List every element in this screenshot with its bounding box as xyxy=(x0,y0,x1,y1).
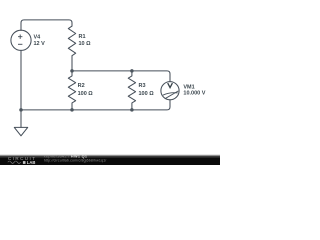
wire bottom rail xyxy=(21,100,170,110)
wire middle rail (R1 bottom to VM1 top) xyxy=(72,56,170,82)
voltage source V4 xyxy=(11,30,31,50)
label V4 12 V xyxy=(34,35,46,47)
svg-text:R2: R2 xyxy=(78,83,85,89)
label R1 10 Ohm xyxy=(79,34,92,47)
junction node R3 top xyxy=(130,69,134,73)
resistor R2 xyxy=(68,71,75,110)
svg-text:100 Ω: 100 Ω xyxy=(139,91,155,97)
svg-text:R1: R1 xyxy=(79,34,86,40)
svg-text:V4: V4 xyxy=(34,35,42,41)
wire ground lead xyxy=(20,110,22,128)
resistor R3 xyxy=(128,71,135,110)
watermark bar xyxy=(0,154,220,157)
svg-text:10 Ω: 10 Ω xyxy=(79,41,92,47)
junction node ground/V4 xyxy=(19,108,23,112)
svg-text:LAB: LAB xyxy=(27,160,36,165)
junction node R1/R2/middle xyxy=(70,69,74,73)
junction node R2 bottom xyxy=(70,108,74,112)
svg-text:VM1: VM1 xyxy=(183,85,194,91)
svg-text:12 V: 12 V xyxy=(34,41,46,47)
svg-text:100 Ω: 100 Ω xyxy=(78,91,94,97)
junction node R3 bottom xyxy=(130,108,134,112)
label R3 100 Ohm xyxy=(139,83,155,97)
resistor R1 xyxy=(68,26,75,56)
voltmeter V glyph xyxy=(168,83,173,88)
svg-text:http://circuitlab.com/c/8gj6b8: http://circuitlab.com/c/8gj6b8/hw1q1/ xyxy=(44,158,107,162)
wire V4 bottom lead xyxy=(20,50,22,110)
ground xyxy=(14,127,27,135)
watermark CircuitLab logo xyxy=(8,156,37,165)
label VM1 10.000 V xyxy=(183,85,205,97)
svg-text:10.000 V: 10.000 V xyxy=(183,91,205,97)
voltmeter VM1 xyxy=(161,82,179,100)
svg-text:R3: R3 xyxy=(139,83,146,89)
wire top (V4 to R1) xyxy=(21,20,72,30)
label R2 100 Ohm xyxy=(78,83,94,97)
